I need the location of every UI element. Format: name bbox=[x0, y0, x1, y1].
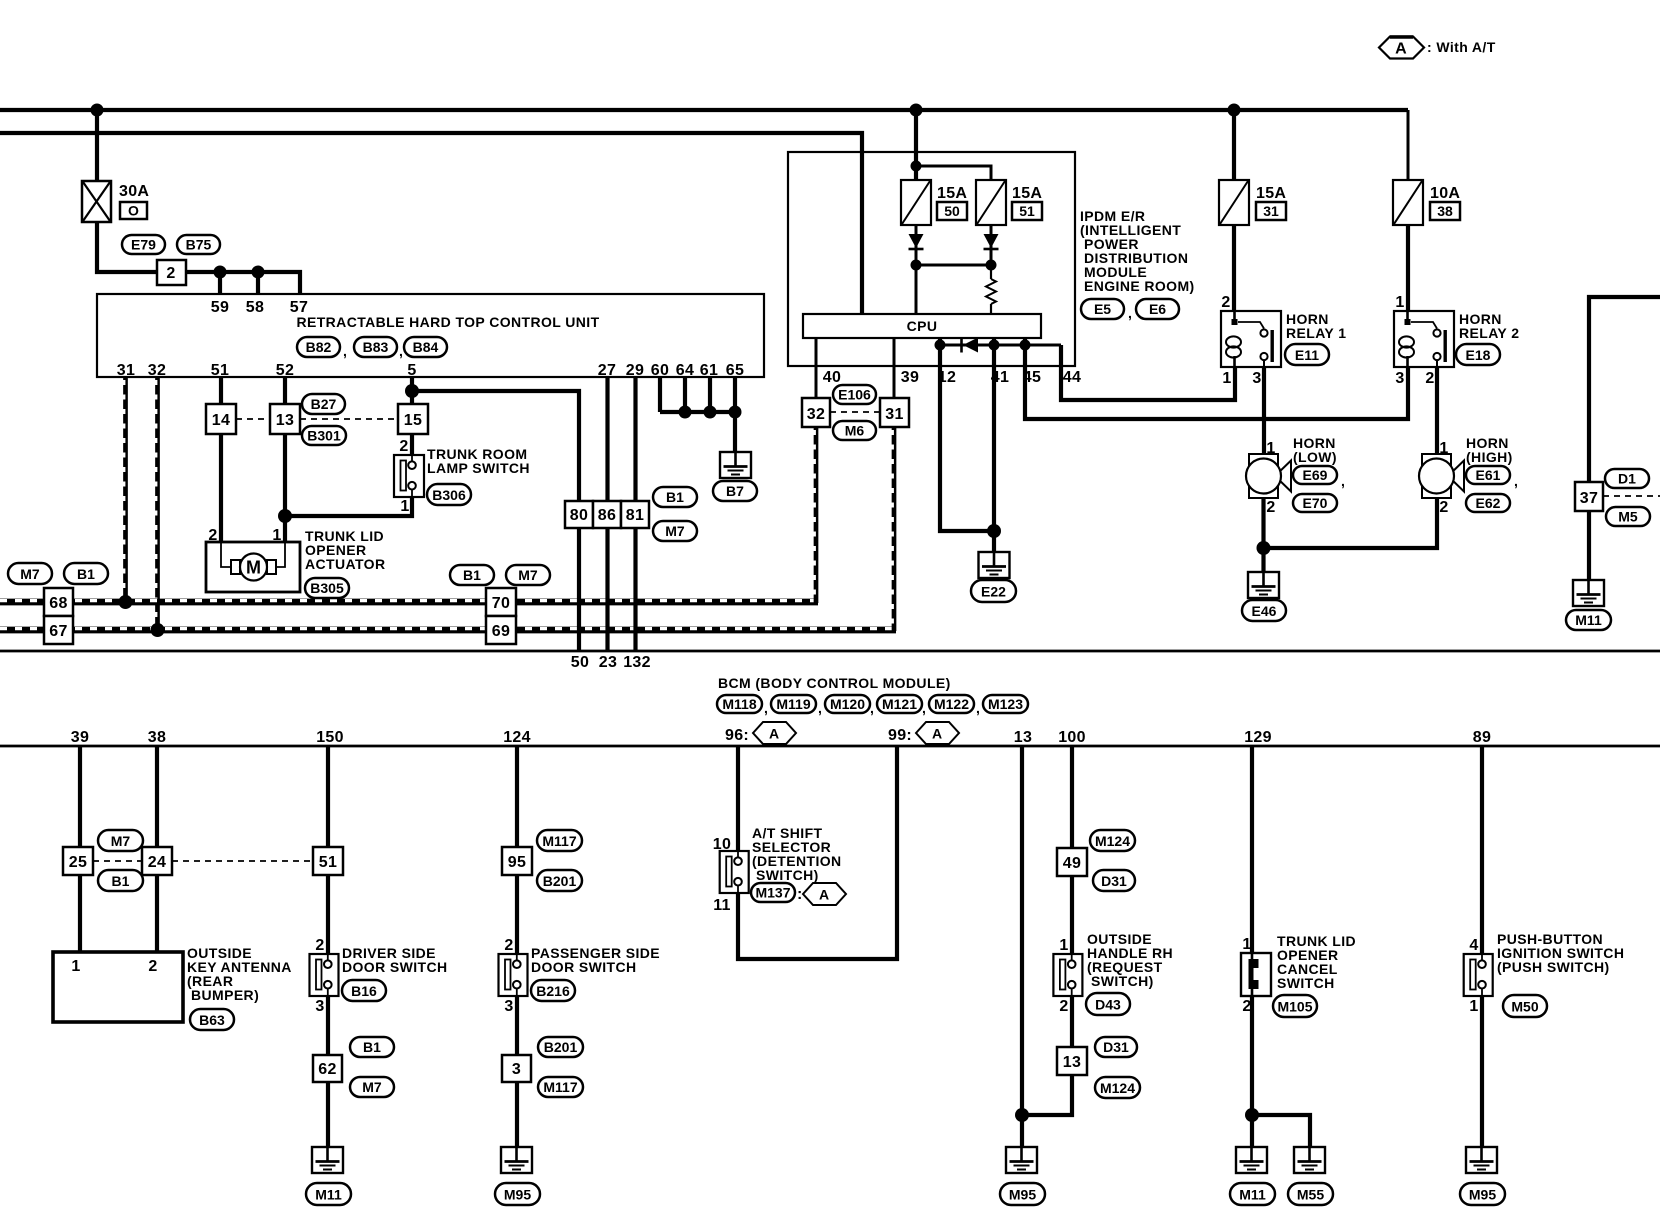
svg-text:SWITCH: SWITCH bbox=[1277, 975, 1335, 991]
svg-text:,: , bbox=[818, 700, 822, 716]
dashed link 32-31 bbox=[830, 411, 880, 413]
svg-text:B84: B84 bbox=[413, 339, 439, 355]
junction: pin 41 / pin 12 merge bbox=[987, 524, 1001, 538]
svg-text:E79: E79 bbox=[131, 237, 156, 253]
svg-text:(HIGH): (HIGH) bbox=[1466, 449, 1513, 465]
svg-text:DOOR SWITCH: DOOR SWITCH bbox=[342, 959, 448, 975]
dashed link 14-13 bbox=[236, 418, 270, 420]
svg-text:A: A bbox=[819, 887, 829, 903]
connector M11 (cancel) bbox=[1230, 1183, 1275, 1205]
connector B1 (above 70) bbox=[450, 565, 494, 585]
connector M7 (right of 81) bbox=[653, 521, 697, 541]
connector D31 (handle gnd) bbox=[1095, 1037, 1137, 1057]
connector pin box 37 bbox=[1575, 482, 1603, 511]
connector E79 bbox=[122, 235, 165, 254]
junction: pin 59 stub bbox=[214, 266, 227, 279]
svg-text:51: 51 bbox=[1019, 203, 1035, 219]
wire: to CPU left input bbox=[915, 265, 918, 314]
wire: box 25 to antenna pin 1 bbox=[78, 875, 82, 952]
connector pin box 51 (driver door) bbox=[313, 847, 343, 875]
svg-text:M119: M119 bbox=[776, 696, 810, 712]
connector E11 bbox=[1285, 344, 1329, 365]
svg-text:58: 58 bbox=[246, 299, 264, 316]
wire: passenger switch to box 3 bbox=[515, 996, 519, 1055]
connector M118 bbox=[717, 695, 768, 716]
connector M50 bbox=[1503, 995, 1547, 1017]
svg-text:B1: B1 bbox=[112, 873, 130, 889]
connector D31 (handle) bbox=[1093, 870, 1135, 891]
dashed link 25-24 bbox=[93, 860, 142, 862]
ground M11 (right) bbox=[1573, 580, 1604, 606]
wire CPU pin 39 bbox=[893, 338, 896, 398]
svg-text:B1: B1 bbox=[666, 489, 684, 505]
wire: branch to ground M55 bbox=[1252, 1115, 1310, 1147]
wire BCM pin 96 to A/T shift selector bbox=[736, 746, 740, 851]
connector D43 bbox=[1086, 993, 1130, 1015]
wire CPU pin 41 to ground bbox=[992, 338, 996, 552]
wire: lamp switch to pin52 wire junction bbox=[285, 497, 412, 516]
svg-text:: With A/T: : With A/T bbox=[1427, 39, 1496, 55]
connector E46 bbox=[1242, 600, 1286, 621]
svg-text:E61: E61 bbox=[1476, 467, 1501, 483]
wire: branch to fuse 51 bbox=[916, 166, 991, 180]
connector pin box 69 bbox=[486, 616, 516, 644]
junction: pin 5 branch bbox=[405, 384, 419, 398]
ground M95 (push) bbox=[1466, 1147, 1497, 1173]
outside key antenna (rear bumper) B63 bbox=[53, 952, 183, 1022]
wire: relay1 pin3 to horn low bbox=[1262, 367, 1266, 454]
wire: battery bus 2 feed to CPU bbox=[0, 133, 862, 315]
svg-text:E6: E6 bbox=[1149, 301, 1166, 317]
wire pin 31 (shield dashed) bbox=[123, 377, 128, 602]
wire CPU pin 44 to horn relay 1 bbox=[1061, 345, 1235, 400]
value label 15A / 51 bbox=[1012, 185, 1042, 220]
svg-text:,: , bbox=[922, 700, 926, 716]
connector M7 (driver gnd) bbox=[350, 1077, 394, 1097]
svg-text:13: 13 bbox=[1063, 1054, 1081, 1071]
connector pin box 2 bbox=[157, 260, 186, 285]
svg-text:13: 13 bbox=[276, 412, 294, 429]
wire: box 95 to passenger door switch bbox=[515, 875, 519, 954]
horn relay 1 E11 bbox=[1221, 311, 1281, 367]
svg-text:B27: B27 bbox=[311, 396, 337, 412]
svg-text:E5: E5 bbox=[1094, 301, 1111, 317]
svg-text:,: , bbox=[764, 700, 768, 716]
svg-text:15A: 15A bbox=[1256, 185, 1286, 202]
trunk lid opener actuator B305 (motor) bbox=[206, 542, 300, 592]
svg-text:51: 51 bbox=[211, 362, 229, 379]
svg-text:,: , bbox=[1341, 473, 1345, 489]
svg-text:60: 60 bbox=[651, 362, 669, 379]
svg-text:2: 2 bbox=[1059, 998, 1068, 1015]
svg-text:B301: B301 bbox=[307, 428, 341, 444]
svg-text:RELAY 1: RELAY 1 bbox=[1286, 325, 1346, 341]
connector B83 bbox=[354, 337, 403, 359]
wire: bus1 to fusible link bbox=[95, 110, 99, 181]
wire: connector 2 to pins 59/58/57 bbox=[186, 272, 300, 294]
wire CPU pin 12 bbox=[940, 338, 994, 531]
wire BCM pin 129 bbox=[1250, 746, 1254, 953]
svg-text:2: 2 bbox=[1221, 294, 1230, 311]
svg-text:31: 31 bbox=[117, 362, 135, 379]
svg-text:61: 61 bbox=[700, 362, 718, 379]
svg-text:A: A bbox=[769, 726, 779, 742]
svg-text:B1: B1 bbox=[77, 566, 95, 582]
BCM pin labels 50 23 132 bbox=[571, 654, 651, 671]
svg-text:2: 2 bbox=[315, 937, 324, 954]
label TRUNK LID OPENER CANCEL SWITCH bbox=[1277, 933, 1356, 991]
svg-text:1: 1 bbox=[1059, 937, 1068, 954]
connector B306 bbox=[427, 484, 471, 505]
connector pin box 13 (handle) bbox=[1057, 1047, 1087, 1075]
wire pin 65 bbox=[733, 377, 737, 412]
svg-text:14: 14 bbox=[212, 412, 230, 429]
svg-text:E11: E11 bbox=[1295, 347, 1319, 363]
junction dots diode outputs bbox=[911, 260, 997, 271]
svg-text:RETRACTABLE HARD TOP CONTROL U: RETRACTABLE HARD TOP CONTROL UNIT bbox=[296, 314, 599, 330]
svg-text:O: O bbox=[128, 203, 139, 219]
connector pin box 31 (IPDM 39) bbox=[880, 398, 909, 427]
svg-text:1: 1 bbox=[71, 958, 80, 975]
svg-text:44: 44 bbox=[1063, 369, 1081, 386]
wire: cancel switch to grounds bbox=[1250, 996, 1254, 1147]
trunk lid opener cancel switch M105 bbox=[1241, 953, 1271, 996]
wire BCM pin 13 to ground bbox=[1020, 746, 1024, 1147]
wire: box 13 to actuator pin 1 bbox=[283, 434, 287, 542]
connector pin box 81 bbox=[621, 501, 649, 528]
svg-text:E106: E106 bbox=[838, 387, 871, 403]
IPDM pin number labels bbox=[823, 369, 1081, 386]
junction: pin32 wire on lower dashed bus bbox=[151, 623, 165, 637]
connector B1 (antenna) bbox=[98, 870, 143, 891]
connector M119 bbox=[771, 695, 822, 716]
svg-text:M: M bbox=[246, 558, 261, 578]
connector M7 (antenna) bbox=[98, 830, 143, 851]
svg-text:M124: M124 bbox=[1100, 1080, 1135, 1096]
connector B1 (right of 81) bbox=[653, 487, 697, 507]
retractable hard top control unit box bbox=[97, 294, 764, 377]
svg-text:70: 70 bbox=[492, 595, 510, 612]
connector M95 (push) bbox=[1460, 1183, 1505, 1205]
connector E69 bbox=[1293, 466, 1345, 489]
label HORN RELAY 2 bbox=[1459, 311, 1519, 341]
svg-text:32: 32 bbox=[148, 362, 166, 379]
svg-text:,: , bbox=[399, 343, 403, 359]
junction: fuse 51 branch bbox=[911, 161, 922, 172]
A/T shift selector (detention switch) M137 bbox=[720, 851, 749, 893]
svg-text:50: 50 bbox=[944, 203, 960, 219]
svg-text:M137: M137 bbox=[755, 885, 790, 901]
ground E22 bbox=[979, 552, 1010, 578]
svg-text:M122: M122 bbox=[934, 696, 969, 712]
label TRUNK ROOM LAMP SWITCH bbox=[427, 446, 530, 476]
ground M55 bbox=[1294, 1147, 1325, 1173]
connector pin box 14 bbox=[206, 404, 236, 434]
svg-text:96:: 96: bbox=[725, 727, 749, 744]
connector M123 bbox=[983, 695, 1028, 713]
svg-text:68: 68 bbox=[49, 595, 67, 612]
svg-text:3: 3 bbox=[1252, 370, 1261, 387]
svg-text:SWITCH): SWITCH) bbox=[756, 867, 819, 883]
connector D1 bbox=[1605, 469, 1649, 488]
wire pin 51 bbox=[219, 377, 223, 404]
diode D (between pins 12 and 41) bbox=[962, 338, 979, 353]
svg-text:15A: 15A bbox=[937, 185, 967, 202]
svg-text:D31: D31 bbox=[1101, 873, 1127, 889]
connector pin box 49 bbox=[1057, 848, 1087, 876]
connector B305 bbox=[305, 578, 349, 598]
svg-text:D31: D31 bbox=[1103, 1039, 1129, 1055]
svg-text:B7: B7 bbox=[726, 483, 744, 499]
svg-text:1: 1 bbox=[1242, 936, 1251, 953]
connector B82 bbox=[297, 337, 347, 359]
svg-text:37: 37 bbox=[1580, 490, 1598, 507]
label OUTSIDE HANDLE RH (REQUEST SWITCH) bbox=[1087, 931, 1173, 989]
horn (low) E69/E70 bbox=[1246, 454, 1291, 498]
junction dots on diode row bbox=[935, 340, 1031, 351]
svg-text:38: 38 bbox=[1437, 203, 1453, 219]
push-button ignition switch (push switch) M50 bbox=[1464, 954, 1493, 996]
connector M6 bbox=[833, 421, 876, 440]
svg-text:51: 51 bbox=[319, 854, 337, 871]
wire: horn low pin2 to ground / horn high pin2 bbox=[1264, 498, 1438, 548]
junction: bus1 / fusible link tap bbox=[91, 104, 104, 117]
wire: pin 5 branch to BCM pin 50 bbox=[412, 391, 579, 651]
wire BCM pin 38 bbox=[155, 746, 159, 847]
svg-text:15: 15 bbox=[404, 412, 422, 429]
label OUTSIDE KEY ANTENNA (REAR BUMPER) bbox=[187, 945, 292, 1003]
wire CPU pin 40 bbox=[815, 338, 818, 398]
svg-text:LAMP SWITCH: LAMP SWITCH bbox=[427, 460, 530, 476]
legend: With A/T note bbox=[1379, 37, 1496, 59]
svg-text:1: 1 bbox=[1469, 998, 1478, 1015]
svg-text:RELAY 2: RELAY 2 bbox=[1459, 325, 1519, 341]
dashed link 37 to sheet edge bbox=[1603, 495, 1660, 497]
wire: dashed bus upper (to IPDM pin 40) bbox=[0, 599, 818, 606]
horn relay 2 E18 bbox=[1394, 311, 1454, 367]
BCM pin 99 with A/T flag bbox=[888, 722, 959, 744]
svg-text:62: 62 bbox=[318, 1061, 336, 1078]
connector B27 bbox=[302, 394, 345, 414]
ground B7 bbox=[720, 452, 751, 478]
connector M7 (left) bbox=[8, 563, 52, 584]
connector M11 (right) bbox=[1566, 610, 1611, 630]
connector B301 bbox=[302, 426, 346, 445]
svg-text:3: 3 bbox=[512, 1061, 521, 1078]
svg-text:2: 2 bbox=[399, 438, 408, 455]
connector E62 bbox=[1466, 494, 1510, 512]
svg-text:M7: M7 bbox=[518, 567, 538, 583]
wire CPU pin 45 to horn relay 2 bbox=[1025, 338, 1408, 419]
svg-text:49: 49 bbox=[1063, 855, 1081, 872]
wire stub pin 59 bbox=[218, 272, 222, 294]
junction: lamp switch return on pin52 wire bbox=[278, 509, 292, 523]
svg-text:86: 86 bbox=[598, 507, 616, 524]
wire: box 15 to trunk room lamp switch bbox=[410, 434, 414, 455]
connector M55 bbox=[1288, 1183, 1333, 1205]
svg-text:31: 31 bbox=[1263, 203, 1279, 219]
wire: relay2 pin2 to horn high bbox=[1435, 367, 1439, 454]
wire BCM pin 150 bbox=[326, 746, 330, 847]
connector E106 bbox=[833, 385, 876, 404]
svg-text:B201: B201 bbox=[543, 873, 577, 889]
wire: bus1 to fuses 50/51 bbox=[914, 110, 918, 180]
svg-text:12: 12 bbox=[938, 369, 956, 386]
wire: request switch to box 13 bbox=[1070, 996, 1074, 1047]
value label 30A / O bbox=[119, 183, 149, 219]
connector pin box 24 bbox=[142, 847, 172, 875]
junction: pin13/handle switch merge bbox=[1015, 1108, 1029, 1122]
svg-text:M11: M11 bbox=[1575, 612, 1602, 628]
label PUSH-BUTTON IGNITION SWITCH (PUSH SWITCH) bbox=[1497, 931, 1624, 975]
wire: box 24 to antenna pin 2 bbox=[155, 875, 159, 952]
junction: pin 58 stub bbox=[252, 266, 265, 279]
svg-text:(LOW): (LOW) bbox=[1293, 449, 1337, 465]
svg-text:,: , bbox=[1514, 473, 1518, 489]
svg-text:M120: M120 bbox=[830, 696, 865, 712]
label HORN RELAY 1 bbox=[1286, 311, 1346, 341]
svg-text:ACTUATOR: ACTUATOR bbox=[305, 556, 385, 572]
connector M11 (driver) bbox=[306, 1183, 351, 1205]
pin numbers 59 58 57 bbox=[211, 299, 308, 316]
svg-text:23: 23 bbox=[599, 654, 617, 671]
svg-text:99:: 99: bbox=[888, 727, 912, 744]
svg-text:41: 41 bbox=[991, 369, 1009, 386]
svg-text:89: 89 bbox=[1473, 729, 1491, 746]
svg-text:A: A bbox=[932, 726, 942, 742]
svg-text:M121: M121 bbox=[882, 696, 917, 712]
connector M121 bbox=[877, 695, 926, 716]
trunk room lamp switch B306 bbox=[394, 455, 424, 497]
svg-text:45: 45 bbox=[1023, 369, 1041, 386]
svg-text:M7: M7 bbox=[362, 1079, 382, 1095]
wire pin 27 bbox=[605, 377, 609, 651]
svg-text:M117: M117 bbox=[542, 833, 576, 849]
wire: fuse 38 to relay 2 bbox=[1406, 225, 1410, 311]
connector pin box 80 bbox=[565, 501, 593, 528]
connector M105 bbox=[1273, 995, 1317, 1017]
connector pin box 67 bbox=[44, 616, 73, 644]
svg-text:B75: B75 bbox=[186, 237, 212, 253]
wire stub pin 58 bbox=[256, 272, 260, 294]
svg-text:29: 29 bbox=[626, 362, 644, 379]
wire: battery bus 1 bbox=[0, 108, 1408, 112]
svg-text:M5: M5 bbox=[1618, 509, 1638, 525]
svg-text:11: 11 bbox=[713, 897, 731, 914]
connector B1 (left) bbox=[64, 563, 108, 584]
connector B1 (driver gnd) bbox=[350, 1037, 394, 1057]
ground M95 (passenger) bbox=[501, 1147, 532, 1173]
connector E61 bbox=[1466, 466, 1518, 489]
dashed link 13-15 bbox=[300, 418, 398, 420]
ground M11 (driver) bbox=[312, 1147, 343, 1173]
connector B75 bbox=[177, 235, 220, 254]
svg-text:E62: E62 bbox=[1476, 495, 1501, 511]
svg-text:B1: B1 bbox=[363, 1039, 381, 1055]
svg-text:,: , bbox=[870, 700, 874, 716]
label IPDM E/R (INTELLIGENT POWER DISTRIBUTION MODULE ENGINE ROOM) bbox=[1080, 208, 1195, 294]
connector M5 bbox=[1606, 507, 1650, 526]
wire: junction to ground E46 bbox=[1261, 548, 1265, 572]
wire pin 32 (shield dashed) bbox=[155, 377, 160, 630]
svg-text:80: 80 bbox=[570, 507, 588, 524]
svg-text:B216: B216 bbox=[536, 983, 570, 999]
svg-text:M105: M105 bbox=[1277, 999, 1312, 1015]
fuse 51 15A bbox=[976, 180, 1006, 225]
wire: box 51 to driver door switch bbox=[326, 875, 330, 954]
svg-text:B1: B1 bbox=[463, 567, 481, 583]
connector B216 bbox=[531, 980, 575, 1001]
connector pin box 68 bbox=[44, 588, 73, 616]
wire: fusible link to connector 2 bbox=[97, 222, 157, 272]
ground M11 (cancel) bbox=[1236, 1147, 1267, 1173]
wire: fuse 31 to relay 1 coil bbox=[1232, 225, 1236, 311]
svg-text:M117: M117 bbox=[543, 1079, 577, 1095]
wire: dashed bus lower (to IPDM pin 39) bbox=[0, 627, 896, 634]
connector pin box 86 bbox=[593, 501, 621, 528]
wire: diode outputs common bbox=[916, 264, 991, 267]
junction dots 64 61 65 bbox=[679, 406, 742, 419]
svg-text:38: 38 bbox=[148, 729, 166, 746]
pin labels 1 / 3 relay 1 bbox=[1222, 370, 1261, 387]
svg-text:95: 95 bbox=[508, 854, 526, 871]
pin labels 3 / 2 relay 2 bbox=[1395, 370, 1434, 387]
wire: box 14 to actuator pin 2 bbox=[219, 434, 223, 542]
svg-text:SWITCH): SWITCH) bbox=[1091, 973, 1154, 989]
svg-text:69: 69 bbox=[492, 623, 510, 640]
connector pin box 25 bbox=[63, 847, 93, 875]
dashed link 24-51 bbox=[172, 860, 313, 862]
resistor R (CPU input) bbox=[986, 265, 996, 314]
wire: driver switch to box 62 bbox=[326, 996, 330, 1055]
wire: pins 60-65 common to ground B7 bbox=[660, 412, 735, 452]
connector E22 bbox=[971, 580, 1016, 602]
CPU box bbox=[803, 314, 1041, 338]
diode D (fuse 50 branch) bbox=[909, 234, 924, 249]
svg-text:CPU: CPU bbox=[907, 318, 938, 334]
wire BCM pin 39 bbox=[78, 746, 82, 847]
BCM pin 96 with A/T flag bbox=[725, 722, 796, 744]
svg-text:M7: M7 bbox=[111, 833, 131, 849]
connector pin box 62 bbox=[313, 1055, 342, 1082]
wire: bus1 corner to fuse 38 bbox=[1407, 110, 1410, 180]
svg-text:M95: M95 bbox=[504, 1187, 531, 1203]
svg-text:39: 39 bbox=[901, 369, 919, 386]
svg-text:B83: B83 bbox=[363, 339, 389, 355]
wire pin 5 bbox=[410, 377, 414, 404]
label A/T SHIFT SELECTOR (DETENTION SWITCH) bbox=[752, 825, 842, 883]
connector M117 (passenger gnd) bbox=[538, 1077, 583, 1097]
BCM bottom edge line bbox=[0, 745, 1660, 748]
connector B16 bbox=[342, 980, 386, 1001]
svg-text:2: 2 bbox=[1425, 370, 1434, 387]
svg-text:50: 50 bbox=[571, 654, 589, 671]
svg-text:3: 3 bbox=[504, 998, 513, 1015]
svg-text:150: 150 bbox=[316, 729, 344, 746]
svg-text:24: 24 bbox=[148, 854, 166, 871]
svg-text:65: 65 bbox=[726, 362, 744, 379]
svg-text:25: 25 bbox=[69, 854, 87, 871]
wire BCM pin 124 bbox=[515, 746, 519, 847]
junction: pin31 wire on upper dashed bus bbox=[119, 595, 133, 609]
svg-text:M95: M95 bbox=[1009, 1187, 1036, 1203]
connector B63 bbox=[190, 1009, 234, 1030]
svg-text:13: 13 bbox=[1014, 729, 1032, 746]
svg-text::: : bbox=[797, 886, 803, 903]
connector pin box 3 bbox=[502, 1055, 531, 1082]
label DRIVER SIDE DOOR SWITCH bbox=[342, 945, 448, 975]
svg-text:1: 1 bbox=[1222, 370, 1231, 387]
